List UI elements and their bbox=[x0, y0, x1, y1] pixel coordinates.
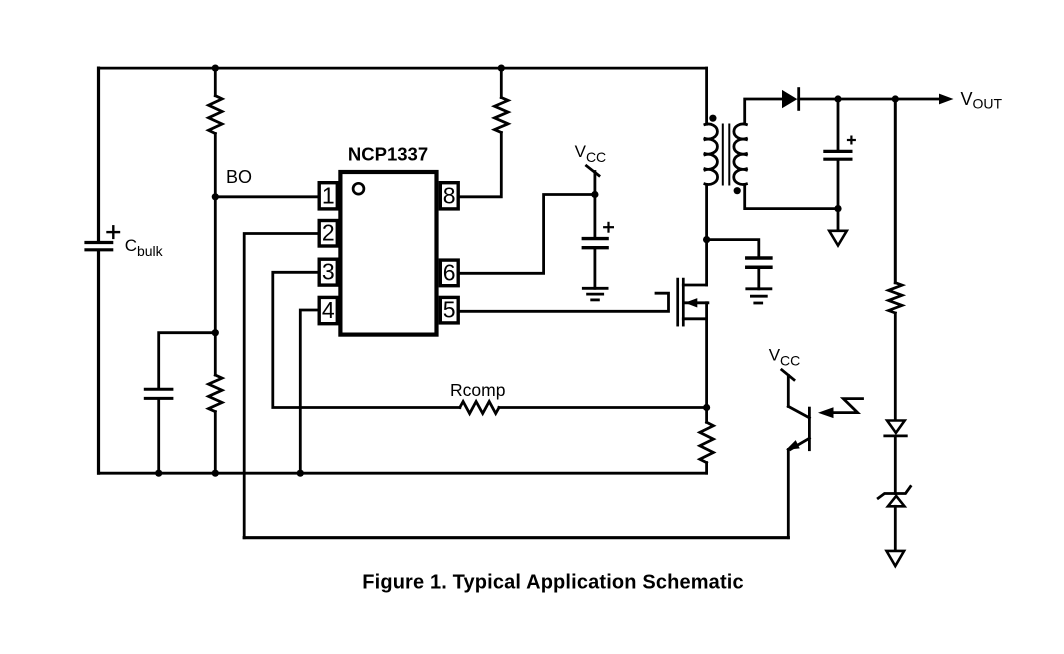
wire pin 4 chain bbox=[300, 310, 317, 473]
resistor Rsense bbox=[700, 422, 714, 462]
node BO bbox=[212, 193, 219, 200]
wire left rail lower bbox=[97, 251, 100, 473]
node bottom rail / filter cap bbox=[155, 470, 162, 477]
wire output cap top lead bbox=[837, 99, 840, 150]
wire top rail bbox=[99, 67, 707, 70]
wire C5 to ground bbox=[757, 269, 760, 289]
wire pin 3 chain bbox=[273, 272, 460, 407]
svg-text:Figure 1. Typical Application: Figure 1. Typical Application Schematic bbox=[362, 572, 744, 594]
diode D1 rectifier bbox=[782, 89, 799, 110]
wire Q1 source tap bbox=[683, 317, 706, 320]
svg-text:8: 8 bbox=[443, 182, 456, 208]
node output cap bbox=[834, 95, 841, 102]
node secondary return bbox=[834, 205, 841, 212]
wire opto emitter down bbox=[787, 450, 790, 538]
wire pin 5 to gate hook bbox=[460, 293, 669, 311]
resistor R1 bbox=[209, 96, 223, 134]
arrow opto light bbox=[818, 399, 863, 419]
wire Q1 drain vertical bbox=[705, 240, 708, 285]
resistor R3 bbox=[495, 98, 509, 133]
capacitor C2 filter bbox=[145, 389, 172, 398]
transformer T1 primary winding bbox=[705, 124, 718, 184]
phase dot primary bbox=[709, 115, 716, 122]
pin 3 box bbox=[319, 259, 337, 285]
wire pin 1 to BO node bbox=[215, 195, 317, 198]
wire Vcc node to C3 bbox=[594, 195, 597, 237]
wire secondary top to diode bbox=[745, 99, 782, 124]
zener ZD1 bbox=[878, 487, 910, 507]
wire bottom rail bbox=[99, 472, 707, 475]
transformer T1 core bbox=[723, 125, 730, 185]
node bottom rail / pin4 wire bbox=[297, 470, 304, 477]
ground G3 triangle bbox=[829, 231, 847, 246]
node top rail / R1 junction bbox=[212, 65, 219, 72]
wire R3 top lead bbox=[500, 68, 503, 97]
ground earth G2 bbox=[747, 289, 771, 303]
wire cap node to R2 bbox=[214, 333, 217, 375]
svg-text:Rcomp: Rcomp bbox=[450, 380, 505, 400]
wire snubber branch bbox=[707, 240, 759, 257]
wire zener to ground bbox=[894, 506, 897, 551]
transistor Q2 opto collector slant bbox=[788, 406, 809, 417]
phase dot secondary bbox=[734, 187, 741, 194]
capacitor Cbulk bbox=[86, 243, 112, 250]
wire Rsense bottom to rail bbox=[705, 463, 708, 474]
arrow Q2 emitter bbox=[786, 440, 800, 450]
pin 1 box bbox=[319, 183, 337, 209]
ground G4 triangle bbox=[887, 551, 905, 566]
wire opto collector lead bbox=[787, 376, 790, 407]
diode D2 opto LED bbox=[885, 421, 907, 436]
node bottom rail / R2 bbox=[212, 470, 219, 477]
plus sign C4 polarity bbox=[848, 137, 855, 144]
node source / Rcomp bbox=[703, 404, 710, 411]
wire left rail upper bbox=[97, 68, 100, 241]
wire to ground G3 bbox=[837, 209, 840, 231]
svg-text:1: 1 bbox=[322, 182, 335, 208]
plus sign C3 polarity bbox=[604, 223, 613, 232]
svg-text:BO: BO bbox=[226, 167, 252, 187]
svg-text:3: 3 bbox=[322, 259, 335, 285]
pin 5 box bbox=[440, 297, 458, 323]
resistor Rcomp bbox=[460, 402, 499, 414]
wire diode to Vout bbox=[799, 98, 940, 101]
wire R4 to LED bbox=[894, 313, 897, 421]
capacitor C3 Vcc bbox=[583, 239, 607, 248]
wire Q1 drain tap bbox=[683, 284, 706, 287]
op IC U1 NCP1337 body bbox=[340, 172, 436, 335]
wire filter cap branch bbox=[159, 333, 216, 388]
wire R2 bottom to rail bbox=[214, 412, 217, 474]
pin 2 box bbox=[319, 221, 337, 247]
pin 8 box bbox=[440, 183, 458, 209]
capacitor C4 output bbox=[825, 151, 851, 159]
resistor R2 bbox=[209, 375, 223, 412]
wire BO node down to cap node bbox=[214, 197, 217, 333]
ground earth G1 bbox=[583, 288, 607, 300]
supply tick Vcc opto bbox=[782, 370, 794, 380]
capacitor C5 snubber bbox=[747, 258, 771, 267]
wire Vcc tick to node bbox=[594, 172, 597, 195]
wire C3 to ground bbox=[594, 249, 597, 288]
wire divider top lead bbox=[894, 99, 897, 283]
wire primary top lead bbox=[705, 68, 708, 124]
transistor Q2 opto bar bbox=[808, 408, 811, 450]
wire R1 bottom to BO node bbox=[214, 134, 217, 197]
wire R1 top lead bbox=[214, 68, 217, 96]
wire LED to zener bbox=[894, 436, 897, 494]
svg-text:5: 5 bbox=[443, 297, 456, 323]
wire Q1 body tap bbox=[684, 301, 708, 304]
transistor Q2 opto emitter slant bbox=[791, 438, 810, 449]
arrow Vout bbox=[939, 94, 954, 105]
wire source node to Rsense bbox=[705, 408, 708, 423]
plus sign Cbulk polarity bbox=[108, 226, 120, 238]
arrow Q1 body bbox=[685, 298, 698, 307]
transistor Q1 channel bar bbox=[682, 279, 685, 325]
wire Q1 source vertical bbox=[705, 303, 708, 408]
node divider top bbox=[892, 95, 899, 102]
wire output cap bottom lead bbox=[837, 161, 840, 209]
supply tick Vcc middle bbox=[587, 166, 600, 176]
pin-1 indicator circle bbox=[353, 183, 364, 194]
wire secondary bottom return bbox=[745, 185, 838, 209]
svg-text:4: 4 bbox=[322, 297, 335, 323]
transistor Q1 MOSFET gate bar bbox=[676, 279, 679, 325]
node drain / snubber bbox=[703, 236, 710, 243]
pin 4 box bbox=[319, 297, 337, 323]
node Vcc bbox=[591, 191, 598, 198]
transformer T1 secondary winding bbox=[734, 124, 747, 184]
wire C2 bottom to rail bbox=[157, 400, 160, 473]
wire primary bottom lead bbox=[705, 185, 708, 240]
wire Rcomp to MOSFET source node bbox=[499, 406, 707, 409]
wire pin 8 to R3 bbox=[460, 133, 501, 197]
wire pin 2 chain bbox=[244, 234, 317, 538]
node top rail / R3 junction bbox=[498, 65, 505, 72]
node filter cap junction bbox=[212, 329, 219, 336]
svg-text:2: 2 bbox=[322, 220, 335, 246]
resistor R4 bbox=[889, 283, 903, 313]
svg-text:NCP1337: NCP1337 bbox=[348, 144, 428, 165]
wire pin 6 to Vcc node bbox=[460, 195, 595, 274]
pin 6 box bbox=[440, 260, 458, 286]
svg-text:6: 6 bbox=[443, 259, 456, 285]
wire feedback bottom bbox=[244, 536, 788, 539]
